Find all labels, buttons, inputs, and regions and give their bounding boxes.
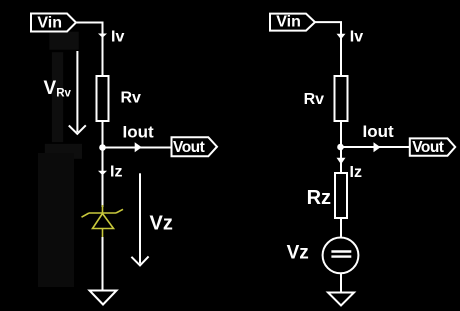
resistor Rv (right): [335, 76, 348, 121]
zener diode (left): [82, 205, 124, 237]
wire Vin to Rv (left): [76, 23, 103, 77]
voltage source Vz: [323, 238, 359, 274]
port Vout (right): [410, 138, 455, 155]
wire Rv to node (left): [102, 121, 104, 148]
wire source to ground (right): [340, 273, 342, 292]
wire node to Vout (left): [103, 147, 172, 149]
current arrow Iv (right): [337, 34, 346, 39]
svg-text:Vin: Vin: [276, 14, 301, 31]
svg-text:Vout: Vout: [173, 139, 205, 156]
svg-text:Vz: Vz: [287, 243, 309, 264]
svg-text:Vout: Vout: [412, 139, 444, 156]
current arrow Iout (right): [374, 142, 381, 152]
resistor Rz: [335, 173, 347, 218]
svg-text:Iv: Iv: [350, 29, 363, 46]
svg-text:Rv: Rv: [304, 91, 325, 108]
voltage arrow Vz (left): [131, 173, 148, 265]
node junction (left): [99, 144, 106, 151]
resistor Rv (left): [97, 76, 109, 121]
svg-text:Iout: Iout: [123, 123, 154, 142]
svg-text:Rz: Rz: [307, 187, 331, 209]
svg-text:Vin: Vin: [37, 15, 62, 32]
current arrow Iv (left): [98, 34, 107, 38]
port Vout (left): [172, 137, 218, 156]
wire Vin to Rv (right): [315, 22, 341, 76]
wire node to Rz: [340, 147, 342, 173]
current arrow Iz (right): [337, 158, 346, 164]
svg-text:Iv: Iv: [111, 29, 124, 46]
svg-text:Iout: Iout: [363, 122, 394, 141]
ground (right): [328, 293, 354, 306]
node junction (right): [337, 144, 344, 151]
svg-text:Iz: Iz: [110, 164, 122, 181]
current arrow Iout (left): [135, 142, 142, 152]
wire node to zener (left): [102, 148, 104, 208]
voltage arrow V_Rv: [69, 51, 86, 134]
current arrow Iz (left): [98, 171, 107, 175]
wire zener to ground (left): [102, 237, 104, 291]
wire Rv to node (right): [340, 121, 342, 147]
port Vin (right): [270, 14, 315, 31]
svg-text:Rv: Rv: [121, 89, 142, 106]
svg-text:Iz: Iz: [350, 164, 362, 181]
port Vin (left): [31, 14, 76, 32]
ground (left): [90, 291, 117, 305]
wire node to Vout (right): [341, 146, 410, 148]
svg-text:Vz: Vz: [150, 212, 173, 234]
wire Rz to source: [340, 218, 342, 238]
